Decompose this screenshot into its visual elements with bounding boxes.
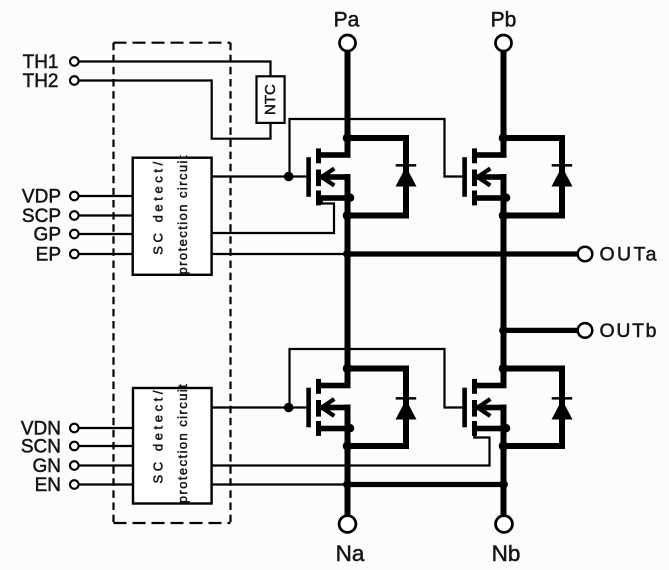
wire: SCN input [79, 445, 133, 447]
wire: SCP input [79, 214, 133, 216]
wire: N-side source sense (to Q4 source) [212, 431, 490, 466]
wire: GN input [79, 464, 133, 466]
junction: OUTb at Pb bus [499, 326, 508, 335]
body diode D1 [343, 133, 409, 220]
svg-text:SCN: SCN [21, 437, 61, 458]
MOSFET Q2 (high side, phase b) [462, 148, 510, 205]
terminal GP [34, 225, 79, 246]
terminal SCP [22, 206, 79, 227]
wire: P-side gate line (block to Q1 gate) [212, 175, 307, 177]
SC detect / protection circuit block (P side) [133, 155, 212, 275]
terminal Nb [492, 516, 521, 566]
wire: EN input [79, 483, 133, 485]
wire: EP input [79, 253, 133, 255]
terminal TH2 [23, 71, 79, 92]
terminal OUTb [578, 320, 657, 342]
svg-text:Nb: Nb [492, 541, 521, 566]
dashed boundary box (module outline) [114, 43, 231, 523]
terminal VDN [21, 419, 79, 440]
body diode D2 [499, 133, 565, 220]
body diode D4 [499, 364, 565, 451]
wire: TH2 to NTC bottom [79, 81, 271, 139]
wire: GP input [79, 233, 133, 235]
svg-text:protection circuit: protection circuit [175, 384, 190, 503]
svg-text:Na: Na [336, 541, 365, 566]
svg-text:TH2: TH2 [23, 71, 59, 92]
wire: Pb bus (vertical, phase b) [501, 52, 507, 516]
body diode D3 [343, 364, 409, 451]
svg-text:OUTb: OUTb [600, 320, 657, 342]
terminal EN [35, 475, 79, 496]
terminal TH1 [23, 52, 79, 73]
wire: EN line (block to N bus node) [212, 483, 348, 485]
junction: N tie at Nb bus [499, 480, 508, 489]
wire: Pa bus (vertical, phase a) [345, 52, 351, 516]
svg-text:EN: EN [35, 475, 61, 496]
MOSFET Q3 (low side, phase a) [306, 379, 354, 436]
svg-text:TH1: TH1 [23, 52, 59, 73]
wire: VDN input [79, 427, 133, 429]
wire: TH1 to NTC top [79, 62, 271, 77]
terminal GN [33, 456, 79, 477]
wire: Na-Nb tie line [348, 482, 504, 487]
junction: N tie at Na bus [343, 480, 352, 489]
svg-text:VDP: VDP [22, 187, 61, 208]
junction: P gate node [284, 172, 294, 182]
terminal Pb [491, 9, 517, 52]
junction: OUTa at Pa bus [343, 250, 352, 259]
wire: P-side source sense (to Q1 source) [212, 199, 334, 233]
terminal VDP [22, 187, 79, 208]
junction: OUTa crossing Pb bus [499, 250, 507, 258]
svg-text:Pa: Pa [334, 9, 360, 32]
terminal Na [336, 516, 365, 566]
terminal EP [36, 245, 79, 266]
terminal OUTa [578, 244, 657, 266]
svg-text:EP: EP [36, 245, 61, 266]
svg-text:NTC: NTC [262, 84, 279, 115]
wire: N-side gate line (block to Q3 gate) [212, 406, 307, 408]
MOSFET Q1 (high side, phase a) [306, 148, 354, 205]
svg-text:GP: GP [34, 225, 61, 246]
svg-text:OUTa: OUTa [600, 244, 657, 266]
wire: OUTb line [504, 328, 578, 333]
svg-text:GN: GN [33, 456, 62, 477]
wire: EP line (block to OUTa node) [212, 253, 348, 255]
terminal Pa [334, 9, 360, 52]
NTC thermistor [257, 76, 285, 123]
wire: VDP input [79, 195, 133, 197]
svg-text:Pb: Pb [491, 9, 517, 32]
wire: OUTa line [348, 251, 578, 256]
MOSFET Q4 (low side, phase b) [462, 379, 510, 436]
SC detect / protection circuit block (N side) [133, 384, 212, 504]
wire: N-side gate riser to Q4 gate [290, 349, 463, 408]
wire: P-side gate riser to Q2 gate [290, 119, 463, 177]
junction: N gate node [284, 403, 294, 413]
terminal SCN [21, 437, 79, 458]
svg-text:protection circuit: protection circuit [175, 155, 190, 274]
